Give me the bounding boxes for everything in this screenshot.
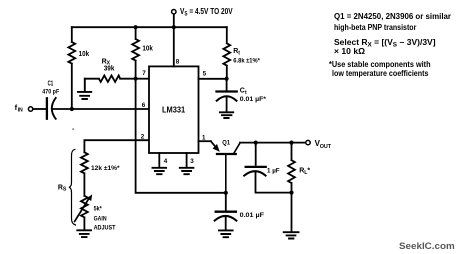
watermark SeekIC.com: [399, 241, 455, 250]
label 6.8k ±1%*: [233, 57, 260, 64]
svg-text:8: 8: [176, 59, 180, 66]
transistor Q1 PNP: [211, 141, 240, 193]
node junction dot 1uF: [254, 141, 258, 145]
node junction dot pin5/Rt/Ct: [225, 77, 229, 81]
svg-text:6.8k ±1%*: 6.8k ±1%*: [233, 57, 260, 64]
node junction dot Q1 base: [224, 191, 228, 195]
pot wiper arrow: [75, 194, 93, 221]
resistor RX 39k horizontal: [85, 75, 136, 81]
note line 2: [334, 23, 416, 32]
svg-text:39k: 39k: [104, 66, 115, 73]
pin number 4: [164, 158, 168, 165]
pin number 1: [202, 134, 206, 141]
pin number 5: [203, 70, 207, 77]
label LM331: [162, 104, 185, 114]
svg-text:ADJUST: ADJUST: [94, 224, 117, 231]
label VOUT: [315, 139, 332, 150]
svg-text:C1: C1: [48, 81, 54, 88]
node junction dot VS rail: [172, 25, 176, 29]
label 5k*: [94, 206, 102, 213]
label Ct: [240, 88, 247, 96]
pin number 7: [142, 70, 146, 77]
op-amp/IC U1 LM331 box: [149, 66, 199, 153]
label Q1: [222, 140, 230, 146]
resistor RL load: [288, 143, 295, 193]
wire pin 1: [199, 140, 211, 142]
resistor Rt 6.8k: [223, 27, 230, 79]
svg-text:10k: 10k: [79, 51, 90, 58]
svg-text:470 pF: 470 pF: [42, 89, 59, 96]
wire C1 to pin 6: [53, 108, 149, 110]
label fIN: [15, 103, 23, 113]
wire top supply rail: [72, 26, 227, 28]
svg-text:5k*: 5k*: [94, 206, 102, 213]
svg-text:2: 2: [141, 133, 145, 140]
terminal VOUT circle: [306, 140, 310, 144]
ground (pin 4): [153, 168, 167, 174]
potentiometer 5k gain adjust: [81, 196, 88, 230]
svg-text:GAIN: GAIN: [94, 216, 107, 223]
svg-text:6: 6: [142, 102, 146, 109]
label 0.01 uF*: [240, 96, 267, 103]
ground (0.01uF): [219, 230, 233, 237]
stray speck: [72, 128, 74, 130]
svg-text:0.01 µF: 0.01 µF: [240, 212, 264, 219]
wire pin 8: [173, 27, 175, 66]
label Rt: [233, 48, 240, 56]
resistor 10k second branch: [132, 27, 139, 78]
note line 5: [329, 60, 431, 69]
svg-text:7: 7: [142, 70, 146, 77]
svg-text:LM331: LM331: [162, 104, 185, 114]
label C1: [48, 81, 54, 88]
ground (RX): [78, 79, 91, 99]
label 12k ±1%*: [91, 165, 120, 172]
node junction dot RL: [289, 141, 293, 145]
node junction dot rail/10k: [134, 25, 138, 29]
svg-text:t: t: [245, 90, 247, 96]
svg-text:IN: IN: [18, 108, 23, 114]
svg-text:OUT: OUT: [320, 144, 332, 150]
svg-text:*: *: [307, 168, 310, 175]
svg-text:12k ±1%*: 12k ±1%*: [91, 165, 120, 172]
note line 1 Q1: [334, 12, 451, 21]
note line 3 select RX: [334, 38, 436, 47]
label RX: [102, 58, 111, 66]
label 470 pF: [42, 89, 59, 96]
pin 3 stub: [186, 153, 188, 167]
svg-text:0.01 µF*: 0.01 µF*: [240, 96, 267, 103]
wire fIN to C1: [33, 108, 46, 110]
svg-text:10k: 10k: [142, 46, 153, 53]
pin number 3: [190, 158, 194, 165]
label ADJUST: [94, 224, 117, 231]
svg-text:S: S: [63, 187, 67, 193]
ground (pin 3): [180, 168, 194, 174]
pin 4 stub: [158, 153, 160, 167]
terminal VS circle: [172, 10, 176, 28]
svg-text:4: 4: [164, 158, 168, 165]
label VS = 4.5V TO 20V: [180, 7, 233, 16]
ground (RL): [284, 232, 299, 238]
node junction dot RL bottom: [289, 191, 293, 195]
node junction dot pin7: [134, 77, 138, 81]
svg-text:t: t: [238, 51, 240, 57]
wire collector to VOUT: [240, 142, 306, 144]
wire vertical bus from pin7 node down to base node: [136, 79, 226, 193]
label 0.01 uF: [240, 212, 264, 219]
svg-text:1 µF: 1 µF: [267, 168, 280, 175]
svg-text:1: 1: [202, 134, 206, 141]
note line 4: [334, 47, 365, 56]
resistor 10k left branch: [68, 27, 75, 109]
pin number 2: [141, 133, 145, 140]
label 10k (left): [79, 51, 90, 58]
capacitor 1uF: [244, 143, 291, 193]
resistor 12k 1%: [81, 152, 88, 196]
pin number 8: [176, 59, 180, 66]
label RL*: [299, 168, 310, 176]
wire pin 5: [199, 78, 227, 80]
wire pin 7: [136, 78, 149, 80]
terminal fIN circle: [28, 107, 32, 111]
pin number 6: [142, 102, 146, 109]
wire RL node to ground: [291, 193, 293, 232]
ground (gain adjust): [77, 230, 91, 237]
svg-text:5: 5: [203, 70, 207, 77]
svg-text:3: 3: [190, 158, 194, 165]
node junction dot fIN/10k: [70, 107, 74, 111]
label RS: [58, 184, 67, 192]
svg-text:Q1: Q1: [222, 140, 230, 146]
capacitor 0.01uF output filter: [215, 193, 237, 230]
label 39k: [104, 66, 115, 73]
label 1 uF: [267, 168, 280, 175]
note line 6: [332, 69, 428, 78]
label 10k (second): [142, 46, 153, 53]
wire pin 2 to RS branch: [84, 140, 149, 152]
ground (Ct): [220, 112, 233, 118]
capacitor Ct 0.01uF: [217, 79, 237, 112]
label GAIN: [94, 216, 107, 223]
brace RS bracket: [69, 149, 76, 225]
capacitor C1 470 pF: [47, 98, 56, 119]
